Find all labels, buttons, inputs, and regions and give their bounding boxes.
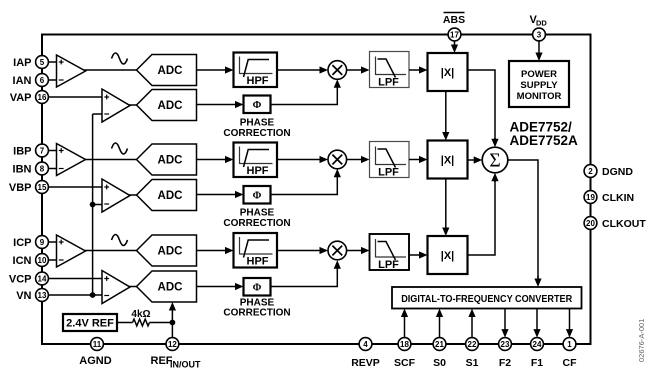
pin 1 CF	[563, 338, 576, 351]
svg-text:POWER: POWER	[521, 69, 557, 80]
svg-text:ICP: ICP	[13, 237, 31, 249]
wire ADC2 to phase correction A	[197, 101, 244, 108]
svg-text:11: 11	[93, 340, 102, 349]
pin 23 F2	[499, 338, 512, 351]
svg-text:|X|: |X|	[441, 155, 455, 167]
arrow into multiplier B bottom	[334, 169, 341, 178]
svg-text:LPF: LPF	[378, 167, 399, 179]
svg-text:S0: S0	[433, 357, 446, 369]
pin 6 IAN	[36, 74, 49, 87]
pin 7 IBP	[36, 144, 49, 157]
pin 3 VDD	[533, 28, 546, 41]
svg-text:18: 18	[400, 340, 409, 349]
wire S1 to DTF	[468, 309, 475, 338]
absolute value block |X|2	[428, 141, 468, 179]
wire |X|2 output to sigma	[468, 156, 483, 163]
sine symbol channel B	[112, 143, 128, 154]
ADC5 current C	[137, 235, 197, 266]
digital-to-frequency converter box	[392, 287, 582, 309]
wire ref to ADC6	[169, 302, 176, 323]
ADC1 current A	[137, 55, 197, 86]
wire op-amp C to ADC5	[84, 250, 137, 252]
junction REF	[170, 320, 176, 326]
wire VN to op-amp VC-	[48, 294, 102, 296]
pin 4 REVP	[359, 338, 372, 351]
LPF2 block	[370, 142, 410, 179]
wire DTF to CF	[566, 309, 573, 338]
pin 16 VAP	[36, 91, 49, 104]
pin 13 VN	[36, 289, 49, 302]
wire ref to resistor	[117, 322, 133, 324]
pin 9 ICP	[36, 236, 49, 249]
pin 17 ABS	[448, 28, 461, 41]
svg-text:3: 3	[537, 30, 542, 39]
svg-text:ADE7752A: ADE7752A	[510, 133, 579, 148]
op-amp voltage channel B	[102, 179, 130, 212]
svg-text:4kΩ: 4kΩ	[131, 309, 150, 320]
2.4V reference box	[63, 314, 117, 331]
svg-text:CF: CF	[563, 357, 578, 369]
wire ADC6 to phase correction C	[197, 283, 244, 290]
svg-text:21: 21	[435, 340, 444, 349]
op-amp voltage channel A	[102, 89, 130, 122]
ADC6 voltage C	[137, 271, 197, 302]
wire ICN to op-amp C-	[48, 259, 57, 261]
svg-text:HPF: HPF	[247, 75, 269, 87]
op-amp current channel C	[57, 235, 86, 267]
wire VDD to power supply monitor	[535, 41, 542, 61]
svg-text:16: 16	[38, 93, 47, 102]
wire phase B to multiplier B	[271, 172, 338, 195]
svg-text:CLKOUT: CLKOUT	[602, 218, 646, 230]
wire IBN to op-amp B-	[48, 168, 57, 170]
wire VCP to op-amp VC+	[48, 278, 102, 280]
wire phase C to multiplier C	[271, 263, 338, 287]
HPF2 block	[234, 143, 278, 178]
svg-text:PHASE: PHASE	[240, 208, 275, 219]
wire resistor to junction	[150, 322, 173, 324]
svg-text:IBP: IBP	[13, 145, 31, 157]
wire |X|1 to |X|2	[442, 91, 449, 141]
svg-text:8: 8	[40, 164, 45, 173]
wire sigma to DTF converter	[508, 160, 538, 278]
resistor 4k ohm	[133, 319, 150, 326]
svg-text:23: 23	[501, 340, 510, 349]
absolute value block |X|3	[428, 236, 468, 274]
pin 22 S1	[466, 338, 479, 351]
svg-text:DD: DD	[536, 19, 547, 28]
svg-text:S1: S1	[466, 357, 479, 369]
LPF3 block	[370, 234, 410, 271]
svg-text:Φ: Φ	[253, 283, 262, 294]
svg-text:Φ: Φ	[253, 100, 262, 111]
svg-text:IAN: IAN	[13, 75, 32, 87]
op-amp voltage channel C	[102, 271, 130, 304]
pin 19 CLKIN	[584, 191, 597, 204]
multiplier A	[328, 61, 347, 80]
wire DTF to F2	[501, 309, 508, 338]
multiplier C	[328, 241, 347, 260]
junction VN	[90, 292, 96, 298]
wire S0 to DTF	[436, 309, 443, 338]
wire feedback to op-amp VB-	[93, 204, 102, 206]
op-amp current channel B	[57, 144, 86, 176]
svg-text:20: 20	[586, 219, 595, 228]
HPF1 block	[234, 53, 278, 88]
svg-text:2.4V REF: 2.4V REF	[66, 318, 114, 330]
wire ADC5 to HPF3	[197, 247, 234, 254]
svg-text:CLKIN: CLKIN	[602, 192, 634, 204]
wire SCF to DTF	[401, 309, 408, 338]
pin 11 AGND	[91, 338, 104, 351]
svg-text:5: 5	[40, 58, 45, 67]
wire IAN to op-amp A-	[48, 79, 57, 81]
svg-text:22: 22	[468, 340, 477, 349]
svg-text:Φ: Φ	[253, 191, 262, 202]
wire ADC4 to phase correction B	[197, 191, 244, 198]
wire |X|2 to |X|3	[442, 179, 449, 237]
svg-text:VAP: VAP	[10, 92, 32, 104]
pin 5 IAP	[36, 56, 49, 69]
svg-text:9: 9	[40, 238, 45, 247]
wire phase A to multiplier A	[271, 82, 338, 105]
arrow into multiplier A bottom	[334, 79, 341, 88]
svg-text:02676-A-001: 02676-A-001	[637, 319, 646, 362]
wire op-amp A to ADC1	[84, 69, 137, 71]
wire IAP to op-amp A+	[48, 61, 57, 63]
svg-text:IBN: IBN	[13, 163, 32, 175]
svg-text:10: 10	[38, 256, 47, 265]
wire multiplier A to LPF1	[347, 66, 370, 73]
wire DTF to F1	[533, 309, 540, 338]
svg-text:AGND: AGND	[79, 355, 111, 367]
svg-text:ADC: ADC	[158, 155, 183, 167]
svg-text:24: 24	[533, 340, 542, 349]
svg-text:2: 2	[588, 167, 593, 176]
wire VBP to op-amp VB+	[48, 186, 102, 188]
svg-text:CORRECTION: CORRECTION	[223, 128, 290, 139]
svg-text:F1: F1	[531, 357, 543, 369]
chip outline border	[42, 35, 591, 345]
svg-text:DIGITAL-TO-FREQUENCY CONVERTER: DIGITAL-TO-FREQUENCY CONVERTER	[401, 294, 572, 305]
phase correction block A	[244, 96, 271, 114]
svg-text:ABS: ABS	[443, 14, 465, 26]
svg-text:IN/OUT: IN/OUT	[170, 360, 201, 370]
sine symbol channel A	[112, 53, 128, 64]
junction VB-	[90, 202, 96, 208]
arrow into multiplier C bottom	[334, 260, 341, 269]
svg-text:LPF: LPF	[378, 77, 399, 89]
pin 2 DGND	[584, 165, 597, 178]
svg-text:SCF: SCF	[394, 357, 416, 369]
arrow into DTF top	[534, 276, 541, 287]
wire op-amp VB to ADC4	[129, 194, 137, 196]
multiplier B	[328, 150, 347, 169]
summer sigma	[482, 147, 508, 173]
phase correction block C	[244, 278, 271, 296]
svg-text:REVP: REVP	[351, 357, 380, 369]
svg-text:HPF: HPF	[247, 165, 269, 177]
pin 21 S0	[433, 338, 446, 351]
wire VAP to op-amp VA+	[48, 96, 102, 98]
svg-text:ICN: ICN	[13, 255, 32, 267]
wire ADC1 to HPF1	[197, 66, 234, 73]
svg-text:VCP: VCP	[9, 273, 32, 285]
pin 14 VCP	[36, 272, 49, 285]
svg-text:LPF: LPF	[378, 259, 399, 271]
arrow into sigma top	[491, 138, 498, 147]
svg-text:CORRECTION: CORRECTION	[223, 218, 290, 229]
svg-text:ADC: ADC	[158, 190, 183, 202]
svg-text:VBP: VBP	[9, 182, 32, 194]
sine symbol channel C	[112, 235, 128, 246]
wire op-amp VA to ADC2	[129, 104, 137, 106]
wire ABS pin to |X|1	[451, 41, 458, 53]
svg-text:ADC: ADC	[158, 246, 183, 258]
arrow into sigma bottom	[491, 173, 498, 182]
pin 24 F1	[531, 338, 544, 351]
HPF3 block	[234, 233, 278, 268]
wire HPF2 to multiplier B	[277, 156, 328, 163]
wire LPF3 to |X|3	[409, 251, 428, 258]
svg-text:15: 15	[38, 183, 47, 192]
svg-text:F2: F2	[499, 357, 511, 369]
pin 8 IBN	[36, 162, 49, 175]
svg-text:SUPPLY: SUPPLY	[520, 80, 558, 91]
wire HPF1 to multiplier A	[277, 66, 328, 73]
wire feedback to op-amp VA-	[93, 113, 102, 115]
svg-text:7: 7	[40, 146, 45, 155]
svg-text:1: 1	[567, 340, 572, 349]
pin 15 VBP	[36, 181, 49, 194]
op-amp current channel A	[57, 55, 86, 87]
power supply monitor box	[509, 61, 569, 107]
svg-text:|X|: |X|	[441, 250, 455, 262]
svg-text:6: 6	[40, 76, 45, 85]
wire junction to REFpin	[171, 323, 173, 338]
pin 10 ICN	[36, 254, 49, 267]
ADC2 voltage A	[137, 90, 197, 121]
svg-text:ADC: ADC	[158, 65, 183, 77]
svg-text:17: 17	[450, 30, 459, 39]
wire op-amp VC to ADC6	[129, 286, 137, 288]
wire ICP to op-amp C+	[48, 241, 57, 243]
svg-text:ADC: ADC	[158, 100, 183, 112]
wire LPF1 to |X|1	[409, 66, 428, 73]
svg-text:19: 19	[586, 193, 595, 202]
svg-text:HPF: HPF	[247, 256, 269, 268]
phase correction block B	[244, 186, 271, 204]
wire LPF2 to |X|2	[409, 156, 428, 163]
wire op-amp B to ADC3	[84, 159, 137, 161]
wire IBP to op-amp B+	[48, 150, 57, 152]
svg-text:4: 4	[363, 340, 368, 349]
ADC3 current B	[137, 144, 197, 175]
svg-text:ADC: ADC	[158, 282, 183, 294]
svg-text:12: 12	[168, 340, 177, 349]
svg-text:CORRECTION: CORRECTION	[223, 308, 290, 319]
wire ADC3 to HPF2	[197, 156, 234, 163]
LPF1 block	[370, 52, 410, 89]
svg-text:IAP: IAP	[13, 57, 31, 69]
svg-text:MONITOR: MONITOR	[517, 91, 562, 102]
wire |X|3 output to sigma	[468, 181, 496, 256]
svg-text:|X|: |X|	[441, 67, 455, 79]
svg-text:13: 13	[38, 291, 47, 300]
wire HPF3 to multiplier C	[277, 247, 328, 254]
svg-text:14: 14	[38, 274, 47, 283]
wire multiplier C to LPF3	[347, 247, 370, 254]
svg-text:PHASE: PHASE	[240, 118, 275, 129]
svg-text:DGND: DGND	[602, 166, 633, 178]
wire |X|1 output to sigma	[468, 70, 496, 140]
absolute value block |X|1	[428, 53, 468, 91]
pin 20 CLKOUT	[584, 217, 597, 230]
pin 12 REFin/out	[166, 338, 179, 351]
ADC4 voltage B	[137, 180, 197, 211]
feedback vertical wire	[92, 114, 94, 295]
svg-text:Σ: Σ	[489, 151, 500, 172]
svg-text:VN: VN	[16, 290, 31, 302]
pin 18 SCF	[398, 338, 411, 351]
wire multiplier B to LPF2	[347, 156, 370, 163]
